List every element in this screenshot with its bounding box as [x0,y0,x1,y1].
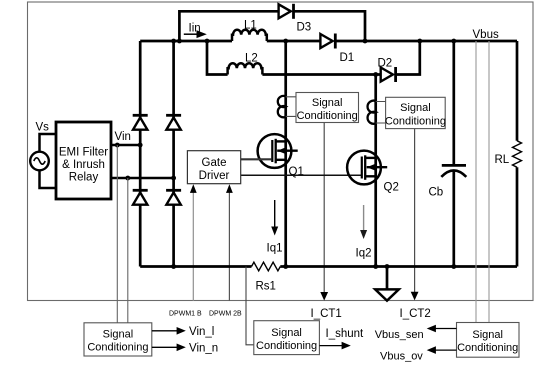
signal conditioning box (Vbus sense) [457,323,520,358]
wire Vbus_sen sense line [475,41,477,323]
capacitor Cb [441,41,466,267]
node Q2 drain junction [373,72,378,77]
svg-text:Q1: Q1 [289,166,304,178]
node D2-bus junction [417,39,422,44]
svg-text:Relay: Relay [69,171,99,183]
diode bridge bottom-right [166,190,181,204]
CT1 winding [278,96,286,117]
svg-text:Conditioning: Conditioning [457,342,518,354]
diode bridge top-left [133,115,148,129]
diode bridge top-right [166,115,181,129]
svg-text:Vin_l: Vin_l [189,326,214,338]
signal conditioning box CT1 [296,93,359,123]
wire Vbus_ov sense line [488,41,490,323]
inductor L1 [232,30,267,41]
node Q1 drain junction [283,39,288,44]
EMI filter block U-EMI [56,122,111,199]
wire CT2 secondary stubs [376,102,386,124]
svg-text:Vbus: Vbus [473,29,499,41]
svg-text:DPWM 2B: DPWM 2B [209,310,242,317]
svg-text:Cb: Cb [429,186,444,198]
wire Vs top to EMI filter [40,134,57,152]
resistor Rs1 [252,262,281,271]
svg-text:DPWM1 B: DPWM1 B [169,310,202,317]
gate driver block [187,151,240,184]
svg-text:L2: L2 [245,52,258,64]
svg-text:Iq2: Iq2 [356,248,372,260]
node ground junction [385,264,390,269]
svg-text:D3: D3 [297,22,312,34]
svg-text:Signal: Signal [271,327,302,339]
wire Q1 drain-source line [284,41,287,267]
wire gate driver to Q1 gate [241,158,272,160]
svg-text:Iq1: Iq1 [267,243,283,255]
wire Rs1 shunt sense [246,267,254,345]
wire D3 to bus [294,11,366,41]
svg-text:Signal: Signal [400,102,431,114]
svg-text:Conditioning: Conditioning [297,110,358,122]
node column2 bottom junction [171,264,176,269]
diode bridge bottom-left [133,190,148,204]
node L2 branch junction [205,39,210,44]
source Vs [30,152,49,171]
arrow Iq2 [360,205,367,239]
arrow Vin_l [152,327,186,335]
wire Vin_l sense line [116,145,118,323]
node neutral wire to column2 [171,176,176,181]
node line wire to column1 [138,143,143,148]
MOSFET Q2 [347,151,387,185]
wire D3 branch (up and right) [179,11,278,41]
svg-text:Vin: Vin [115,131,131,143]
ground [375,267,399,301]
node column2 top junction [171,39,176,44]
diode D1 [320,34,335,49]
wire positive rail mid segment [267,40,321,43]
arrow I_CT2 head [411,292,419,301]
CT2 winding [368,101,376,124]
node D3-bus junction [363,39,368,44]
svg-text:RL: RL [495,154,510,166]
wire positive rail left segment [140,40,232,43]
svg-text:Rs1: Rs1 [256,280,276,292]
svg-text:D1: D1 [340,52,355,64]
svg-text:Signal: Signal [103,328,134,340]
svg-text:Conditioning: Conditioning [256,340,317,352]
wire I_CT1 [323,123,325,294]
wire bottom return rail left [140,265,251,268]
arrow Vin_n [152,344,186,352]
wire L2 branch [207,41,228,75]
resistor RL [513,41,522,267]
arrow I_shunt [319,342,350,350]
node Cb top junction [451,39,456,44]
svg-text:I_CT2: I_CT2 [400,308,431,320]
arrow DPWM1B into gate driver [190,184,197,301]
arrow Vbus_ov [427,346,457,354]
arrow Iin [184,30,207,38]
node neutral sense tap [125,176,130,181]
signal conditioning box (Vin sense) [84,323,152,356]
diode D3 [279,4,294,19]
svg-text:Signal: Signal [312,97,343,109]
arrow DPWM2B into gate driver [226,184,233,301]
inductor L2 [228,63,263,74]
wire I_CT2 [414,129,416,293]
wire Vs bottom to EMI filter [40,170,57,188]
MOSFET Q1 [258,134,298,168]
svg-text:Conditioning: Conditioning [87,341,148,353]
wire EMI line output (Vin node) [111,144,141,147]
svg-text:Conditioning: Conditioning [385,115,446,127]
node Cb bottom junction [451,264,456,269]
wire bottom return rail right [280,265,517,268]
node Vin sense tap [115,143,120,148]
wire Q2 drain-source line [374,75,377,267]
svg-text:L1: L1 [244,20,257,32]
arrow Iq1 [271,200,278,236]
svg-text:Vbus_sen: Vbus_sen [375,329,424,341]
wire L2 to D2 [262,73,380,76]
node D3 branch junction [177,39,182,44]
node Q2 source junction [373,264,378,269]
signal conditioning box (I shunt) [254,321,320,355]
svg-text:I_CT1: I_CT1 [311,308,342,320]
wire bridge column 2 [172,41,175,267]
svg-text:Driver: Driver [199,170,230,182]
svg-text:EMI Filter: EMI Filter [59,146,108,158]
svg-text:Signal: Signal [472,329,503,341]
svg-text:Gate: Gate [202,157,227,169]
svg-text:Q2: Q2 [384,182,399,194]
arrow I_CT1 head [320,292,328,301]
svg-text:Vbus_ov: Vbus_ov [380,351,423,363]
wire Vin_n sense line [127,178,129,323]
wire positive rail right segment [335,40,517,43]
diode D2 [381,67,396,82]
wire CT1 secondary stubs [286,97,296,117]
node Q1 source junction [283,264,288,269]
svg-text:I_shunt: I_shunt [326,328,365,340]
signal conditioning box CT2 [385,97,446,128]
wire EMI neutral output [111,177,174,180]
svg-text:D2: D2 [378,58,393,70]
svg-text:Vs: Vs [36,122,50,134]
arrow Vbus_sen [427,325,457,333]
svg-text:& Inrush: & Inrush [62,159,105,171]
wire D2 to bus [396,41,420,75]
svg-text:Vin_n: Vin_n [189,342,218,354]
wire bridge column 1 [139,41,142,267]
wire gate driver to Q2 gate [241,174,362,176]
